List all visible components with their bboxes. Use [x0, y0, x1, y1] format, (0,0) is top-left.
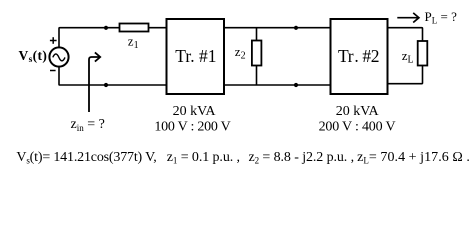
transformer U1 Tr. #1 box [167, 19, 225, 94]
Zin measurement arrow [89, 52, 100, 112]
svg-text:PL = ?: PL = ? [425, 9, 458, 26]
label z1 [128, 33, 139, 51]
svg-text:20 kVA: 20 kVA [336, 104, 380, 119]
svg-text:z2 = 8.8 - j2.2 p.u. ,: z2 = 8.8 - j2.2 p.u. , [249, 150, 354, 166]
svg-text:100 V : 200 V: 100 V : 200 V [154, 119, 230, 134]
caption equation line part 2: z1 = 0.1 p.u. , [167, 150, 240, 166]
rating 20 kVA (Tr. #2) [336, 104, 380, 119]
svg-text:z2: z2 [235, 44, 246, 62]
wire bottom-left from source to Tr. #1 [59, 66, 167, 85]
load zL [418, 41, 428, 66]
svg-text:200 V : 400 V: 200 V : 400 V [319, 119, 396, 134]
wire z2 branch vertical [256, 28, 258, 85]
wire bottom rail between Tr. #1 and Tr. #2 [224, 84, 331, 86]
caption equation line part 4: zL = 70.4 + j17.6 Ohm . [357, 150, 470, 166]
svg-text:zin = ?: zin = ? [71, 117, 105, 133]
impedance z2 [252, 41, 262, 66]
svg-text:zL: zL [402, 48, 414, 66]
label Vs(t) [19, 48, 48, 65]
node dot top-left junction [104, 26, 108, 30]
svg-text:z1 = 0.1 p.u. ,: z1 = 0.1 p.u. , [167, 150, 240, 166]
label zL [402, 48, 414, 66]
svg-text:Tr . #2: Tr . #2 [338, 46, 379, 66]
label Tr. #1 [175, 46, 216, 66]
PL power arrow [397, 13, 419, 23]
svg-text:zL= 70.4 + j17.6 Ω .: zL= 70.4 + j17.6 Ω . [357, 150, 470, 166]
caption equation line part 3: z2 = 8.8 - j2.2 p.u. , [249, 150, 354, 166]
label Zin = ? [71, 117, 105, 133]
caption equation line part 1: Vs(t)= 141.21cos(377t) V, [16, 150, 156, 166]
wire top rail between Tr. #1 and Tr. #2 [224, 27, 331, 29]
svg-text:Tr. #1: Tr. #1 [175, 46, 216, 66]
node dot bottom-right junction [294, 83, 298, 87]
svg-text:z1: z1 [128, 33, 139, 51]
node dot bottom-left junction [104, 83, 108, 87]
resistor z1 [120, 24, 149, 32]
svg-text:Vs(t)= 141.21cos(377t) V,: Vs(t)= 141.21cos(377t) V, [16, 150, 156, 166]
wire top-left from source to Tr. #1 [59, 28, 167, 48]
voltage source Vs [49, 47, 68, 66]
polarity plus [50, 37, 57, 44]
rating 200 V : 400 V (Tr. #2) [319, 119, 396, 134]
label PL = ? [425, 9, 458, 26]
wire load loop bottom [388, 66, 423, 84]
svg-text:20 kVA: 20 kVA [173, 104, 217, 119]
polarity minus [50, 70, 56, 72]
rating 100 V : 200 V (Tr. #1) [154, 119, 230, 134]
rating 20 kVA (Tr. #1) [173, 104, 217, 119]
svg-text:Vs(t): Vs(t) [19, 48, 48, 65]
label z2 [235, 44, 246, 62]
wire load loop top [388, 28, 423, 41]
label Tr. #2 [338, 46, 379, 66]
transformer U2 Tr. #2 box [331, 19, 388, 94]
node dot top-right junction [294, 26, 298, 30]
